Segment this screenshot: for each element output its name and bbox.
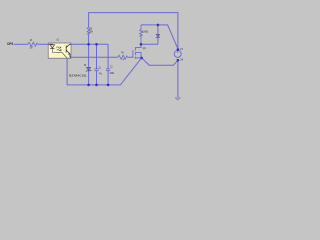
svg-text:DP3: DP3 bbox=[7, 42, 13, 46]
svg-text:1k8: 1k8 bbox=[89, 30, 93, 34]
svg-text:BZX84C16L: BZX84C16L bbox=[69, 73, 87, 77]
svg-text:D1: D1 bbox=[84, 63, 86, 67]
resistor R3 bbox=[28, 42, 38, 46]
resistor R5 bbox=[87, 28, 90, 35]
svg-text:47: 47 bbox=[123, 58, 125, 62]
wire C2 branch bbox=[107, 44, 109, 69]
wire R5 bottom bbox=[88, 34, 90, 44]
wire source to V1 bbox=[142, 58, 178, 65]
wire ground bus bottom bbox=[67, 58, 142, 85]
svg-text:U1: U1 bbox=[56, 38, 59, 42]
svg-text:2k7: 2k7 bbox=[30, 45, 33, 49]
U1 light arrows bbox=[56, 47, 61, 51]
svg-text:Q1: Q1 bbox=[143, 46, 146, 50]
junction dots bbox=[87, 24, 179, 87]
voltage source V1 bbox=[174, 50, 181, 57]
wire V1 to ground bbox=[177, 60, 179, 98]
wire D1 branch bbox=[88, 44, 90, 85]
diode D2 zener in box bbox=[157, 25, 159, 44]
svg-text:100n: 100n bbox=[110, 71, 115, 75]
wire box top bbox=[141, 25, 178, 49]
ground bbox=[175, 98, 178, 100]
wire U1 collector net bbox=[71, 43, 108, 45]
svg-text:V1: V1 bbox=[180, 47, 183, 51]
wire emitter net to R4 bbox=[71, 56, 118, 58]
svg-text:C2: C2 bbox=[110, 65, 113, 69]
U1 phototransistor bbox=[66, 44, 71, 57]
svg-text:1k91: 1k91 bbox=[142, 29, 149, 33]
wire DP3 to R3 bbox=[14, 43, 28, 45]
capacitor C2 bbox=[106, 68, 110, 70]
svg-text:C1: C1 bbox=[99, 65, 101, 69]
transistor Q1 mosfet bbox=[133, 44, 141, 59]
wire R4 to gate bbox=[127, 56, 133, 58]
diode D1 zener bbox=[86, 68, 92, 72]
capacitor C1 bbox=[94, 68, 98, 70]
svg-text:47u: 47u bbox=[99, 71, 102, 75]
resistor R4 bbox=[118, 55, 128, 59]
wire box bottom bbox=[141, 43, 158, 45]
svg-text:R4: R4 bbox=[121, 51, 123, 55]
svg-text:24: 24 bbox=[180, 58, 183, 62]
wire C1 branch bbox=[96, 44, 98, 69]
resistor R6 gate clamp bbox=[140, 25, 143, 44]
op-amp U1 optocoupler body bbox=[48, 43, 71, 58]
U1 LED bbox=[48, 44, 67, 58]
svg-text:R3: R3 bbox=[30, 38, 32, 42]
wire R3 to U1 bbox=[38, 43, 49, 45]
wire rail top bbox=[89, 13, 178, 50]
